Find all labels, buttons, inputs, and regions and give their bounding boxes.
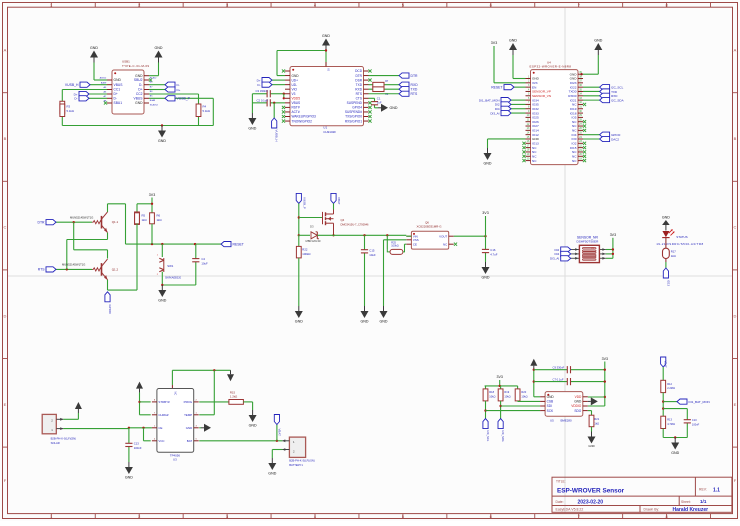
svg-text:VUSB_H: VUSB_H (65, 83, 79, 87)
svg-text:DSHF50TS0ER: DSHF50TS0ER (576, 240, 599, 244)
svg-text:SCK: SCK (547, 409, 554, 413)
svg-text:CE: CE (158, 426, 162, 430)
svg-text:VBUS: VBUS (134, 97, 144, 101)
svg-text:100nF: 100nF (134, 446, 142, 450)
svg-text:C15: C15 (369, 248, 375, 252)
svg-text:U5: U5 (550, 419, 554, 423)
svg-text:TXS/GPIO0: TXS/GPIO0 (345, 115, 362, 119)
svg-text:GND: GND (588, 444, 594, 448)
svg-text:B2B-PH-K-S(LF)(SN): B2B-PH-K-S(LF)(SN) (289, 458, 315, 462)
svg-text:5.1kΩ: 5.1kΩ (67, 109, 74, 113)
svg-text:VBAT: VBAT (664, 361, 668, 369)
svg-text:GND: GND (90, 46, 98, 50)
svg-text:RXD: RXD (411, 83, 419, 87)
svg-text:1kΩ: 1kΩ (671, 254, 676, 258)
svg-text:A: A (4, 48, 7, 53)
svg-text:TXD: TXD (411, 88, 418, 92)
svg-text:A1B12: A1B12 (100, 77, 107, 80)
svg-text:R5: R5 (142, 214, 146, 218)
svg-text:TNOW/GPIO2: TNOW/GPIO2 (292, 119, 313, 123)
svg-text:3V3: 3V3 (496, 375, 502, 379)
svg-text:D3: D3 (310, 225, 314, 229)
svg-text:DMG3415U-7_C700946: DMG3415U-7_C700946 (341, 222, 370, 226)
svg-text:5.1kΩ: 5.1kΩ (203, 109, 210, 113)
svg-text:GND: GND (292, 74, 300, 78)
svg-text:PROG: PROG (184, 400, 193, 404)
svg-text:R4: R4 (203, 105, 207, 109)
svg-text:GPIO0: GPIO0 (108, 305, 112, 315)
svg-text:4.7uF: 4.7uF (490, 253, 497, 257)
svg-text:DI3_AI: DI3_AI (550, 257, 559, 261)
svg-text:RTS: RTS (411, 92, 418, 96)
svg-text:TXD: TXD (356, 83, 363, 87)
svg-text:R17: R17 (671, 249, 677, 253)
svg-text:B2B-PH-K-S(LF)(SN): B2B-PH-K-S(LF)(SN) (51, 437, 77, 441)
svg-text:R6: R6 (157, 214, 161, 218)
svg-text:TYPE-C-31-M-09: TYPE-C-31-M-09 (122, 64, 149, 68)
svg-text:Harald Kreuzer: Harald Kreuzer (673, 507, 709, 513)
svg-text:I2C_SDA: I2C_SDA (611, 98, 624, 102)
svg-text:VIO: VIO (292, 87, 298, 91)
svg-text:DTR: DTR (38, 221, 46, 225)
svg-text:DI2: DI2 (555, 248, 560, 252)
svg-text:E: E (4, 402, 7, 407)
svg-text:3V3: 3V3 (149, 193, 155, 197)
svg-text:GND: GND (509, 39, 517, 43)
svg-text:SUSPEND#: SUSPEND# (345, 110, 362, 114)
svg-text:TITLE:: TITLE: (556, 480, 566, 484)
svg-text:GND: GND (249, 424, 257, 428)
svg-text:NC: NC (572, 159, 577, 163)
svg-text:ACT#: ACT# (292, 110, 300, 114)
svg-text:VUSB_P: VUSB_P (177, 97, 191, 101)
svg-text:GND: GND (135, 101, 143, 105)
svg-text:GND: GND (574, 400, 582, 404)
svg-text:3V3: 3V3 (610, 233, 616, 237)
svg-text:C3 330nF: C3 330nF (256, 89, 269, 93)
svg-text:DTR: DTR (355, 74, 362, 78)
svg-text:3V3: 3V3 (602, 357, 608, 361)
svg-text:STDBY#: STDBY# (158, 400, 170, 404)
svg-text:MUN5214DW1T1G: MUN5214DW1T1G (70, 215, 93, 219)
svg-text:DAC2: DAC2 (611, 137, 619, 141)
svg-text:VOUT: VOUT (439, 234, 447, 238)
svg-text:B: B (734, 136, 737, 141)
svg-text:D-: D- (177, 83, 180, 87)
svg-text:RESET: RESET (491, 85, 502, 89)
svg-text:R3: R3 (67, 105, 71, 109)
svg-text:GND: GND (125, 476, 133, 480)
svg-text:D+: D+ (177, 88, 181, 92)
svg-text:RTS: RTS (356, 92, 362, 96)
svg-text:2.2MΩ: 2.2MΩ (667, 386, 675, 390)
svg-text:B: B (4, 136, 7, 141)
svg-text:VBAT: VBAT (337, 197, 341, 205)
svg-text:UD+: UD+ (292, 78, 299, 82)
svg-text:NC: NC (532, 159, 537, 163)
svg-text:RESET: RESET (233, 242, 244, 246)
svg-text:A: A (734, 48, 737, 53)
svg-text:DI4: DI4 (555, 252, 560, 256)
svg-text:TEMP: TEMP (184, 413, 192, 417)
svg-text:GND: GND (361, 320, 369, 324)
svg-text:D: D (4, 313, 7, 318)
svg-text:STATUS: STATUS (676, 235, 687, 239)
svg-text:100nF: 100nF (692, 422, 700, 426)
svg-text:S1A1S2: S1A1S2 (150, 104, 159, 107)
svg-text:D-: D- (74, 97, 77, 101)
svg-text:D+: D+ (257, 78, 261, 82)
svg-text:U3: U3 (173, 458, 177, 462)
svg-text:10kΩ: 10kΩ (489, 394, 495, 398)
svg-text:VUSB_P: VUSB_P (303, 197, 307, 209)
svg-text:GND: GND (380, 320, 388, 324)
svg-text:C4: C4 (201, 257, 205, 261)
svg-text:R21: R21 (594, 417, 599, 421)
svg-text:SW1: SW1 (167, 264, 174, 268)
svg-text:VDDIO: VDDIO (571, 404, 582, 408)
svg-text:Sheet:: Sheet: (681, 500, 691, 504)
svg-text:A4B9: A4B9 (101, 81, 107, 84)
svg-text:DSR: DSR (355, 78, 362, 82)
svg-text:3V3: 3V3 (491, 41, 497, 45)
svg-text:U1: U1 (323, 126, 327, 130)
svg-text:RTS: RTS (38, 268, 45, 272)
svg-text:GND: GND (484, 162, 492, 166)
svg-text:UD-: UD- (292, 83, 298, 87)
svg-text:B1A12: B1A12 (150, 76, 157, 79)
svg-text:GND: GND (662, 216, 670, 220)
svg-text:GND: GND (594, 39, 602, 43)
svg-text:Q1.1: Q1.1 (112, 220, 119, 224)
svg-text:1uF: 1uF (377, 100, 382, 104)
svg-text:R12: R12 (667, 382, 672, 386)
svg-text:E: E (734, 402, 737, 407)
svg-text:DCD: DCD (355, 69, 363, 73)
svg-text:Date:: Date: (556, 500, 564, 504)
svg-text:2023-02-20: 2023-02-20 (578, 499, 604, 505)
svg-text:10uF: 10uF (369, 253, 376, 257)
svg-text:NC: NC (443, 242, 447, 246)
svg-text:ESP-WROVER Sensor: ESP-WROVER Sensor (557, 487, 625, 494)
svg-text:SOLAR: SOLAR (51, 441, 60, 445)
svg-text:D-: D- (139, 83, 142, 87)
svg-text:SBU2: SBU2 (134, 78, 143, 82)
svg-text:SKRKAEE020: SKRKAEE020 (165, 276, 182, 279)
svg-text:GND: GND (158, 139, 166, 143)
svg-text:WAKEUP/GPIO3: WAKEUP/GPIO3 (292, 115, 317, 119)
svg-text:100kΩ: 100kΩ (391, 245, 398, 248)
svg-text:Q1.2: Q1.2 (112, 267, 119, 271)
svg-text:DI3_AI: DI3_AI (490, 111, 499, 115)
svg-text:D-: D- (114, 97, 117, 101)
svg-text:GND: GND (268, 472, 276, 476)
svg-text:C16: C16 (490, 248, 496, 252)
svg-text:MUN5214DW1T1G: MUN5214DW1T1G (62, 263, 85, 267)
svg-text:BAT: BAT (187, 439, 193, 443)
svg-text:C7 0.1uF: C7 0.1uF (553, 377, 564, 381)
svg-text:SUSPEND: SUSPEND (347, 101, 363, 105)
svg-text:10kΩ: 10kΩ (504, 394, 510, 398)
svg-text:Q4: Q4 (341, 218, 345, 222)
svg-text:GND: GND (671, 451, 679, 455)
svg-text:GND: GND (155, 46, 163, 50)
svg-text:GND: GND (114, 78, 122, 82)
svg-text:GND: GND (390, 106, 398, 110)
svg-text:V3: V3 (292, 92, 296, 96)
svg-text:D+: D+ (138, 88, 142, 92)
svg-text:GND: GND (295, 320, 303, 324)
svg-text:19-213/SDRC/S530-A3/TR8: 19-213/SDRC/S530-A3/TR8 (656, 242, 703, 246)
svg-text:BME280: BME280 (561, 419, 572, 423)
svg-text:D: D (734, 313, 737, 318)
svg-text:MBR120LSF: MBR120LSF (306, 239, 322, 243)
svg-text:SDI: SDI (547, 404, 552, 408)
svg-text:C: C (734, 225, 737, 230)
svg-text:GND: GND (158, 299, 166, 303)
svg-text:1kΩ: 1kΩ (594, 421, 599, 425)
svg-text:10kΩ: 10kΩ (521, 394, 527, 398)
svg-text:GND: GND (547, 395, 555, 399)
svg-text:VCC: VCC (158, 439, 164, 443)
svg-text:VBAT: VBAT (277, 429, 281, 437)
svg-text:GND: GND (322, 34, 330, 38)
svg-text:VUSB_H: VUSB_H (275, 130, 279, 142)
svg-text:100kΩ: 100kΩ (302, 252, 310, 256)
svg-text:C: C (4, 225, 7, 230)
svg-text:VDD5: VDD5 (292, 97, 301, 101)
svg-text:VBUS: VBUS (292, 101, 301, 105)
svg-text:CHRG#: CHRG# (158, 413, 169, 417)
svg-text:GND: GND (248, 127, 256, 131)
svg-text:REV:: REV: (699, 488, 707, 492)
svg-text:1kΩ: 1kΩ (142, 218, 147, 222)
svg-text:SDO: SDO (574, 409, 581, 413)
svg-text:IO: IO (327, 69, 330, 72)
svg-text:VSS: VSS (413, 238, 419, 242)
svg-text:DI1_BAT_MON: DI1_BAT_MON (689, 400, 710, 404)
svg-text:RXD: RXD (355, 87, 362, 91)
svg-text:1/1: 1/1 (700, 499, 707, 504)
svg-text:B4A9: B4A9 (150, 99, 156, 102)
svg-text:DTR: DTR (411, 74, 419, 78)
svg-text:BATTERY1: BATTERY1 (289, 463, 303, 467)
svg-text:R20: R20 (521, 390, 526, 394)
svg-text:C9 330nF: C9 330nF (553, 366, 565, 370)
svg-text:C2 0.1uF: C2 0.1uF (257, 98, 269, 102)
svg-text:R18: R18 (489, 390, 494, 394)
svg-text:D-: D- (257, 83, 260, 87)
svg-text:C10: C10 (692, 418, 697, 422)
svg-text:GND: GND (482, 276, 490, 280)
svg-text:GND: GND (186, 426, 192, 430)
svg-text:CH9102F: CH9102F (323, 130, 336, 134)
svg-text:NC: NC (174, 392, 178, 396)
svg-text:GPIO4: GPIO4 (352, 106, 362, 110)
svg-text:RXS/GPIO1: RXS/GPIO1 (345, 119, 362, 123)
svg-text:EasyEDA V5.8.22: EasyEDA V5.8.22 (556, 508, 584, 512)
svg-text:R22: R22 (302, 247, 308, 251)
svg-text:CSB: CSB (547, 400, 554, 404)
svg-text:VBUS: VBUS (114, 83, 124, 87)
svg-text:RST#: RST# (292, 106, 300, 110)
svg-text:1.1: 1.1 (713, 487, 720, 493)
svg-text:C13: C13 (134, 442, 140, 446)
svg-text:3V3: 3V3 (482, 211, 488, 215)
svg-text:XC6220B331MR-G: XC6220B331MR-G (417, 225, 443, 229)
svg-text:R19: R19 (504, 390, 509, 394)
svg-text:Drawn By:: Drawn By: (644, 508, 660, 512)
svg-text:CC1: CC1 (114, 88, 121, 92)
svg-text:1kΩ: 1kΩ (157, 218, 162, 222)
svg-text:I2C_SCL: I2C_SCL (486, 431, 490, 442)
svg-text:CE: CE (413, 242, 417, 246)
svg-text:1.2kΩ: 1.2kΩ (230, 395, 237, 399)
svg-text:VDD: VDD (575, 395, 582, 399)
svg-text:R13: R13 (667, 418, 672, 422)
svg-text:IO13: IO13 (666, 280, 670, 287)
svg-text:4.7MΩ: 4.7MΩ (667, 422, 675, 426)
svg-text:SBU1: SBU1 (114, 101, 123, 105)
svg-text:CTS: CTS (356, 97, 362, 101)
svg-text:10uF: 10uF (201, 262, 208, 266)
svg-text:ESP32-WROVER-E-N8R8: ESP32-WROVER-E-N8R8 (530, 65, 572, 69)
